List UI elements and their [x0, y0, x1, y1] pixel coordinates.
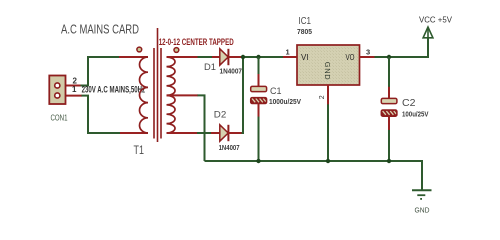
svg-text:VCC +5V: VCC +5V [419, 15, 452, 25]
transformer secondary upper winding [167, 57, 176, 95]
svg-text:C1: C1 [270, 86, 282, 97]
svg-text:CON1: CON1 [51, 114, 68, 123]
wire vertical down to primary bottom [88, 96, 148, 133]
power symbol VCC +5V [423, 27, 433, 38]
svg-text:T1: T1 [134, 143, 145, 157]
wire primary top red lead [119, 56, 148, 58]
svg-text:GND: GND [415, 206, 431, 215]
wire center tap [167, 94, 199, 96]
svg-text:1: 1 [286, 48, 290, 57]
junction dot at 258.5,57 [256, 55, 260, 59]
svg-text:3: 3 [366, 48, 370, 57]
transformer core lines [153, 48, 155, 139]
svg-text:VO: VO [346, 53, 355, 62]
transformer T1 primary winding [140, 57, 149, 133]
svg-text:2: 2 [319, 95, 326, 99]
svg-text:1: 1 [72, 85, 77, 94]
wire secondary bottom to D2 [167, 132, 198, 134]
junction dot at 243,57 [241, 55, 245, 59]
svg-text:12-0-12 CENTER TAPPED: 12-0-12 CENTER TAPPED [159, 37, 234, 48]
wire top node to IC pin1 [243, 56, 284, 58]
phase dot primary [137, 47, 142, 52]
svg-text:1N4007: 1N4007 [219, 143, 240, 152]
svg-text:IC1: IC1 [299, 16, 312, 27]
connector CON1 [49, 76, 65, 105]
junction dot at 389,57 [387, 55, 391, 59]
ground symbol [412, 190, 432, 200]
diode D1 [220, 49, 243, 65]
svg-text:D2: D2 [214, 110, 227, 121]
op-amp/regulator IC1 7805 box [297, 45, 360, 85]
wire CON1 pin1 to corner [60, 95, 82, 97]
svg-text:1000u/25V: 1000u/25V [269, 99, 301, 106]
wire IC pin2 down to rail [327, 85, 329, 105]
junction dot at 328,161 [326, 159, 330, 163]
wire vertical up to primary top [88, 57, 148, 86]
ground rail [205, 161, 423, 190]
wire D2 cathode up to top node [242, 57, 244, 133]
phase dot secondary [174, 48, 179, 53]
svg-text:C2: C2 [402, 98, 416, 109]
wire primary bottom red lead [120, 132, 148, 134]
transformer secondary lower winding [167, 95, 176, 133]
svg-text:230V A.C MAINS,50Hz: 230V A.C MAINS,50Hz [82, 85, 146, 95]
svg-text:100u/25V: 100u/25V [402, 110, 429, 119]
wire CON1 pin2 to corner [60, 85, 81, 87]
wire IC pin3 to VCC corner [360, 56, 376, 58]
svg-text:D1: D1 [204, 62, 216, 73]
diode D2 [220, 125, 242, 141]
junction dot at 258.5,161 [256, 159, 260, 163]
junction dot at 389,161 [387, 159, 391, 163]
capacitor C1 [251, 57, 267, 161]
svg-text:A.C MAINS CARD: A.C MAINS CARD [61, 22, 139, 37]
svg-text:GND: GND [323, 62, 332, 80]
svg-text:1N4007: 1N4007 [220, 67, 243, 76]
capacitor C2 [381, 57, 397, 161]
wire secondary top to D1 [167, 56, 199, 58]
svg-text:7805: 7805 [297, 27, 312, 36]
svg-text:VI: VI [301, 53, 309, 62]
